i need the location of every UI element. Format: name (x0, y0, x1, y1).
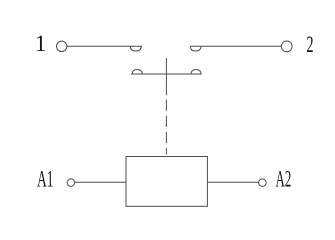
svg-text:1: 1 (35, 30, 46, 56)
wire from terminal 1 to left fixed contact (67, 45, 142, 47)
wire from A1 terminal to coil box (75, 181, 126, 183)
actuator stem (solid) (165, 58, 167, 95)
wire from right fixed contact to terminal 2 (190, 45, 281, 47)
left bridge contact dome (132, 70, 142, 75)
terminal circle 2 (281, 41, 292, 52)
terminal circle 1 (57, 41, 67, 51)
terminal circle A1 (67, 179, 75, 187)
mechanical link to coil (dashed) (165, 100, 167, 155)
terminal circle A2 (259, 179, 267, 187)
movable bridge contact bar (131, 73, 202, 75)
svg-text:A1: A1 (37, 167, 54, 193)
right fixed contact cup (190, 46, 201, 51)
coil box (126, 157, 207, 207)
left fixed contact cup (130, 46, 141, 51)
svg-text:2: 2 (306, 33, 313, 58)
svg-text:A2: A2 (276, 167, 292, 193)
right bridge contact dome (191, 70, 201, 75)
wire from coil box to A2 terminal (207, 181, 258, 183)
